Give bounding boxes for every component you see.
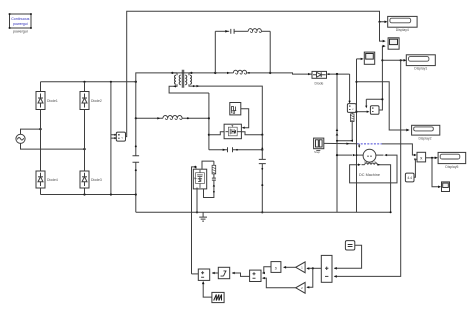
node column x=208.4 [208,93,210,150]
svg-text:Display4: Display4 [396,28,409,32]
wire leg1 bottom [40,188,42,195]
diode Diode2 [80,92,102,110]
capacitor C-in column [133,118,140,194]
gain Kp (triangle) [296,262,305,273]
svg-text:Step: Step [314,150,321,154]
current/volt measurement M3 [370,106,379,115]
wire mosfet2 gate feed from control [192,167,197,274]
AC source V1 [16,128,86,150]
wire integrator out to sum2 [263,267,271,273]
svg-text:powergui: powergui [13,22,28,26]
wire relay out to comparator [212,272,218,274]
junction rail end [390,211,392,213]
wire leg2 bottom [84,188,86,195]
scope Scope2 [364,52,374,64]
constant block 4.4 [405,159,416,182]
svg-text:4.4: 4.4 [407,176,412,180]
wire leg1 mid [40,110,42,172]
wire constant to sum input1 [334,245,361,268]
wire to Display1 [382,59,404,61]
wire product branch to scope3 [432,158,439,187]
wire inductor feed line [136,82,161,119]
wire mosfet1 right to output node [241,132,262,135]
pulse generator P1 [230,103,241,115]
svg-text:F-: F- [375,160,378,164]
svg-text:Diode1: Diode1 [47,99,58,103]
svg-text:Display5: Display5 [445,165,458,169]
gain Ki (triangle) [296,282,305,293]
svg-text:Display2: Display2 [418,137,431,141]
filter loop left riser [214,31,216,73]
sum comparator S3 [198,269,209,280]
wire TL to machine (blue dashed measurement line) [324,142,358,144]
wire product out to Display5 [426,157,437,159]
diode Diode1 [36,92,58,110]
wire speed feedback long drop [334,60,400,276]
diode Diode4 [36,171,58,188]
voltage measurement VM1 [116,132,125,141]
filter top branch: capacitor + inductor [215,29,270,34]
wire sawtooth to comparator [203,282,212,297]
integrator block [271,262,281,273]
svg-text:Diode3: Diode3 [91,178,102,182]
wire mosfet2 drain to snubber top [202,161,214,169]
relay block (f) [218,267,229,278]
wire sum out to gains [307,267,321,269]
scope Scope1 [388,38,399,49]
wire mosfet1 left stub [209,132,224,135]
wire bridge mid tap to voltage measurement [110,82,112,195]
wire converter feed riser [136,73,173,82]
wire rail to series diode [270,73,313,74]
filter loop right riser [269,31,271,73]
wire Ki out to sum2 [263,278,296,288]
bridge top bus [41,81,136,83]
series RLC branch R1 below VM2 [336,112,354,141]
bottom rail [136,211,391,213]
step block TL source [314,138,324,154]
wire sum2 out to relay [232,273,249,276]
snubber Rs Cs [204,161,216,197]
wire to scope1 input1 [380,22,384,41]
wire Kp out to integrator [284,266,296,268]
transformer T1 [169,70,209,93]
svg-text:Diode: Diode [315,82,324,86]
wire input rail to transformer secondary tap [172,72,215,74]
bridge bottom bus [41,195,136,213]
wire machine volt-meas input stubs [357,111,368,113]
diode Diode3 [80,171,102,188]
display Display1 [406,55,435,71]
wire diode out down to VM2 [349,74,351,101]
inline inductor on input rail [215,70,270,74]
output column with capacitor C2 [259,135,266,214]
wire VM1 output up to top rail and Display4 [126,11,386,136]
wire VM2 branch to Display2 [357,82,407,130]
wire VM2 output node column [356,59,358,212]
wire comparator out to gate riser [192,273,199,275]
wire pulse to mosfet1 gate [241,109,249,128]
svg-text:Continuous: Continuous [11,17,29,21]
wire leg2 mid [84,110,86,172]
diode Diode (series) [308,71,326,85]
node dots bridge buses [83,81,85,83]
svg-text:Display1: Display1 [414,67,427,71]
wire machine branch drop [336,74,338,212]
sum block S1 (speed error) [321,255,332,282]
constant block reference [345,241,354,250]
svg-text:DC Machine: DC Machine [359,173,380,177]
product block P [414,152,425,162]
wire diode output [327,73,350,75]
sawtooth generator [212,292,224,302]
display Display4 [388,16,417,32]
mosfet Mosfet2 (vertical) [193,169,206,189]
sum block S2 [250,270,261,281]
wire coupling capacitor line [209,147,264,152]
display Display2 [412,125,440,140]
wire leg1 top [40,82,42,92]
svg-text:powergui: powergui [13,29,28,33]
wire secondary bottom rail to output node [194,86,263,135]
wire VM2 to scope2 [357,58,362,60]
svg-text:Diode4: Diode4 [47,178,58,182]
DC machine [336,149,397,212]
wire leg2 top [84,82,86,92]
svg-text:Diode2: Diode2 [91,99,102,103]
display Display5 [438,152,466,169]
powergui block [9,13,32,33]
wire machine m output to product [382,144,415,155]
mosfet Mosfet1 [224,124,241,139]
inductor L2 [157,116,209,120]
voltage measurement VM2 [347,104,356,113]
wire M3 output up to scope1/display1 [379,46,383,110]
svg-text:F+: F+ [365,160,369,164]
scope Scope3 [442,182,450,192]
wire mosfet2 source to rail [196,188,198,213]
ground [199,212,207,221]
